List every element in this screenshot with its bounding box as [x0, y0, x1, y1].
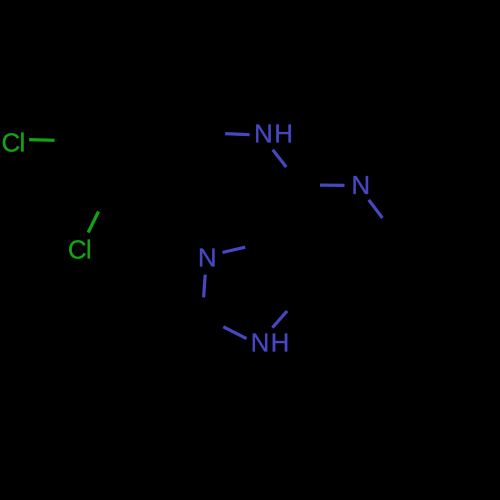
atom Cl1 (3,4-dichlorophenyl, para Cl) label: [2, 128, 26, 158]
bond Cl2-C (green half): [88, 212, 98, 233]
svg-text:N: N: [351, 170, 370, 200]
atom Cl2 (meta Cl) label: [68, 235, 92, 265]
svg-text:N: N: [251, 328, 270, 358]
svg-text:l: l: [20, 128, 26, 158]
svg-text:H: H: [274, 119, 293, 149]
svg-text:N: N: [254, 119, 273, 149]
svg-text:l: l: [86, 235, 92, 265]
atom N-H amine linker label: [254, 119, 293, 149]
bond N1-C2 (blue half): [223, 327, 246, 339]
svg-text:N: N: [198, 243, 217, 273]
bond C4=N5 (blue half): [320, 184, 345, 187]
svg-text:C: C: [2, 128, 21, 158]
bond N3-C2 (blue half): [204, 275, 206, 298]
svg-text:H: H: [271, 328, 290, 358]
bond N3-C3a (blue half): [223, 247, 246, 252]
svg-text:C: C: [68, 235, 87, 265]
bond NH-phenyl (blue half): [225, 134, 249, 135]
atom N1-H imidazole label: [251, 328, 290, 358]
bond Cl1-C (green half): [29, 138, 54, 142]
bond N1-C7a (blue half): [272, 311, 287, 328]
bond NH-C4 (blue half): [273, 150, 287, 167]
bond N5-C6 (blue half): [369, 200, 383, 218]
